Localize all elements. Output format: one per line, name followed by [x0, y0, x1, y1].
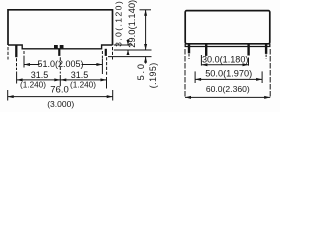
right view pin 4: [265, 44, 267, 54]
svg-text:30.0(1.180): 30.0(1.180): [202, 55, 249, 65]
extension line pin tip right: [108, 56, 152, 58]
60.0 dimension line: [185, 96, 270, 98]
76.0 left extension: [7, 90, 9, 101]
arrowheads 31.5 chain: [17, 78, 23, 81]
31.5 chain dimension line: [17, 79, 107, 81]
dashed extension under pin 3: [106, 57, 108, 75]
60.0 right extension: [269, 49, 271, 98]
3.0 dimension arrows: [127, 39, 129, 45]
arrowheads 51.0: [24, 63, 30, 66]
right view pin 1: [188, 44, 190, 54]
arrowhead 5.0: [144, 57, 147, 63]
arrowheads 29.0: [144, 10, 147, 16]
76.0 dimension line: [8, 96, 113, 98]
arrowheads 76.0: [8, 95, 14, 98]
arrowheads 60.0: [185, 96, 191, 99]
31.5 extension at pin3: [106, 77, 108, 89]
extension line base bottom right: [114, 49, 152, 51]
pin 1 (left, side view): [15, 45, 17, 57]
51.0 right extension line: [101, 51, 103, 59]
30.0 dimension line: [201, 64, 248, 66]
dash under right view pin4: [265, 55, 267, 60]
svg-text:(1.240): (1.240): [70, 81, 96, 90]
50.0 right extension: [261, 71, 263, 83]
right view pin 3: [247, 44, 249, 56]
pin 3 (right, side view): [105, 49, 107, 56]
pin 2 (center, side view): [58, 49, 60, 56]
right view pin 2: [205, 44, 207, 56]
30.0 right extension: [248, 58, 250, 66]
svg-text:(3.000): (3.000): [47, 99, 74, 109]
51.0 dimension line right segment: [82, 64, 103, 66]
29.0 dimension line: [145, 10, 147, 50]
arrowheads 3.0 (outside): [127, 40, 130, 45]
svg-text:31.5: 31.5: [71, 70, 89, 80]
svg-text:29.0(1.140): 29.0(1.140): [126, 0, 137, 48]
hidden dashed line under left case edge: [7, 47, 9, 60]
hidden dashed line under right case edge: [112, 47, 114, 60]
svg-text:51.0(2.005): 51.0(2.005): [37, 59, 83, 69]
51.0 left extension line: [23, 51, 25, 58]
svg-text:50.0(1.970): 50.0(1.970): [205, 68, 252, 78]
76.0 right extension: [112, 90, 114, 101]
dashed extension under pin 2: [59, 57, 61, 73]
right view base: [185, 44, 270, 47]
arrowheads 30.0: [201, 63, 207, 66]
arrowheads 50.0: [195, 78, 201, 81]
dash under right view pin1: [188, 54, 190, 59]
dashed extension under pin 1: [16, 58, 18, 70]
center pin bosses: [54, 45, 58, 49]
svg-text:3.0(.120): 3.0(.120): [114, 0, 124, 47]
extension line flange bottom right: [114, 44, 133, 46]
50.0 left extension: [194, 71, 196, 83]
60.0 left extension: [184, 49, 186, 98]
svg-text:(.195): (.195): [148, 62, 158, 88]
svg-text:5.0: 5.0: [136, 62, 146, 80]
30.0 left extension: [200, 55, 202, 66]
svg-text:60.0(2.360): 60.0(2.360): [206, 84, 250, 94]
left view bottom profile with base step: [8, 45, 113, 49]
51.0 dimension line left segment: [24, 64, 40, 66]
svg-text:(1.240): (1.240): [20, 81, 46, 90]
31.5 extension at pin1: [16, 72, 18, 84]
5.0 dimension arrow shaft: [145, 57, 147, 64]
50.0 dimension line: [195, 78, 262, 80]
svg-text:76.0: 76.0: [50, 84, 69, 95]
right view case outline: [185, 11, 270, 44]
left view case outline: [8, 10, 113, 45]
extension line case top right: [140, 9, 152, 11]
31.5 center extension: [59, 75, 61, 86]
svg-text:31.5: 31.5: [31, 70, 49, 80]
